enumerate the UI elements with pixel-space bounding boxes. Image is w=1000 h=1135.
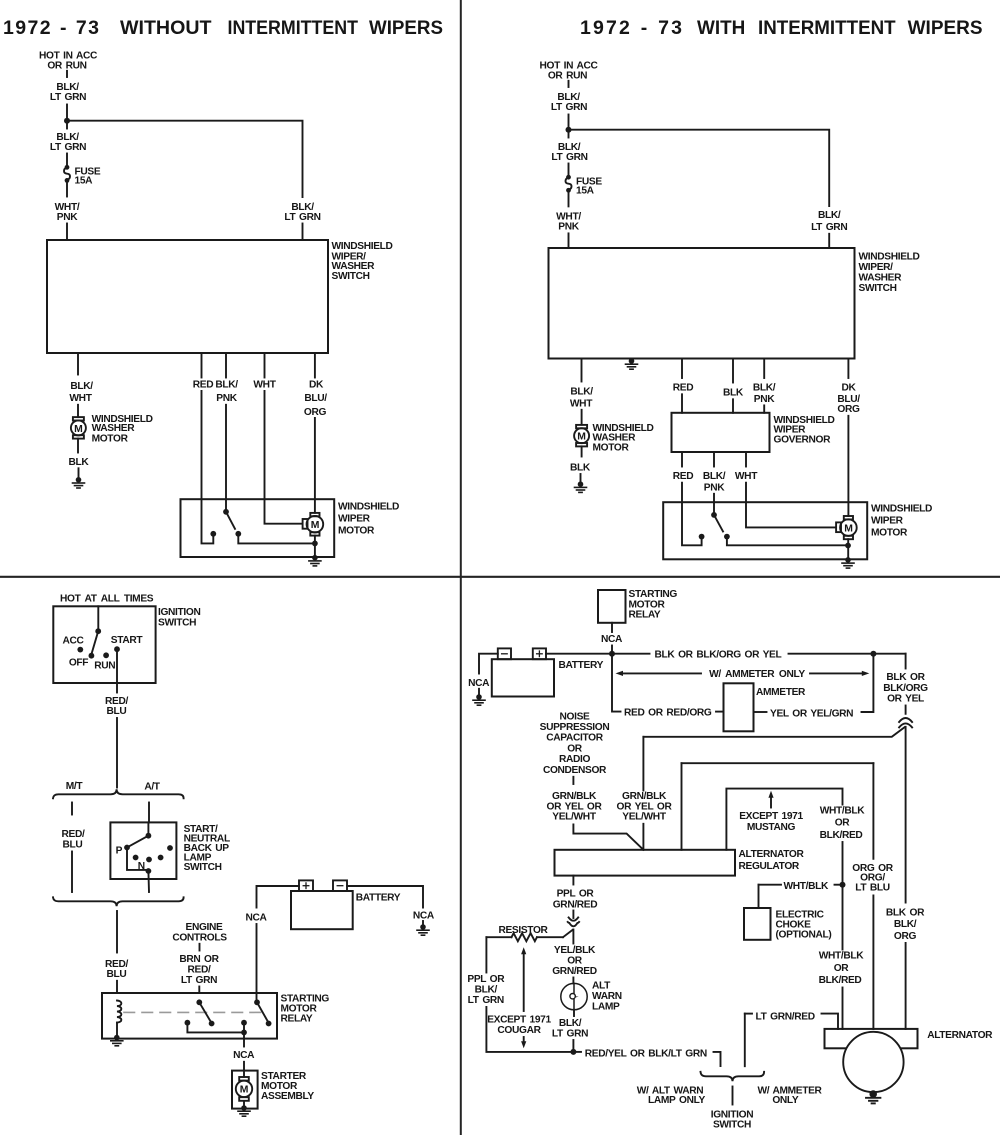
contact dot (RED park contact) [210,531,216,537]
svg-text:WIPERS: WIPERS [908,17,983,39]
svg-text:YEL/WHT: YEL/WHT [552,812,597,823]
wire battery + to junction [546,653,612,655]
wire into regulator [642,824,644,850]
label wire DK BLU/ORG [837,383,860,416]
svg-text:GRN/BLK: GRN/BLK [622,791,667,802]
svg-text:LT GRN: LT GRN [552,1029,588,1040]
node HOT IN ACC OR RUN (Q1 feed) [39,50,98,71]
svg-text:BLU: BLU [107,706,127,717]
contact dot START [114,646,120,652]
svg-text:WITHOUT: WITHOUT [120,17,212,39]
resistor (zigzag) [486,930,572,942]
label windshield wiper governor [774,415,835,446]
svg-text:BLU: BLU [63,840,83,851]
wire into alt warn lamp [572,978,574,984]
electric choke box [744,908,771,940]
svg-text:WINDSHIELD: WINDSHIELD [338,502,399,513]
label wire BLK/LT GRN (right branch) [284,202,320,223]
wire BLK/PNK into governor [763,405,765,412]
label starting motor relay [281,993,330,1024]
junction dot [566,127,572,133]
svg-text:MOTOR: MOTOR [871,528,908,539]
label wire BLK OR BLK/ORG OR YEL (vertical) [883,672,928,704]
svg-text:WIPER/: WIPER/ [859,262,894,273]
svg-text:BLK: BLK [570,462,591,473]
wire DK BLU/ORG from switch [314,353,316,378]
svg-text:OR YEL: OR YEL [887,694,924,705]
label wire GRN/BLK OR YEL OR YEL/WHT (1) [547,791,603,823]
wire to alternator [905,943,907,1029]
windshield wiper/washer switch box (Q2) [549,248,855,359]
svg-text:SWITCH: SWITCH [158,618,196,629]
svg-text:INTERMITTENT: INTERMITTENT [758,17,896,39]
svg-text:BLK/: BLK/ [818,210,841,221]
label alt warn lamp [592,980,622,1012]
contact dot ACC [77,647,83,653]
junction dot (lamp return) [570,1049,576,1055]
junction dot (choke tap) [840,882,846,888]
wire BLK/WHT from switch [581,359,583,382]
splice hop symbol [899,718,912,727]
label EXCEPT 1971 MUSTANG [739,811,803,833]
svg-text:M: M [577,432,586,443]
label ignition switch [158,607,200,628]
junction dot [146,868,152,874]
svg-text:WITH: WITH [697,17,745,39]
wire coil to ground [116,1023,118,1036]
svg-text:ACC: ACC [62,635,84,646]
wire NCA to starter motor [243,1062,245,1077]
wire stub below ENGINE CONTROLS [199,944,201,951]
relay armature dashed link [124,1011,262,1013]
wire WHT governor to motor brush [745,452,747,467]
wire BLK/PNK to switch pivot [225,405,227,512]
wire below fuse [66,183,68,197]
label wire BRN OR RED/LT GRN [179,954,219,986]
svg-text:WINDSHIELD: WINDSHIELD [332,241,393,252]
svg-text:BATTERY: BATTERY [356,892,401,903]
junction dot [609,651,615,657]
wire horiz to ORG column [682,762,874,764]
wire left leg to bottom run [486,1007,573,1052]
svg-text:CONDENSOR: CONDENSOR [543,765,607,776]
blade end dot [209,1021,215,1027]
wire BLK/PNK switch to governor [763,359,765,379]
svg-text:PNK: PNK [754,394,775,405]
brace (ignition switch feeds) [701,1072,765,1082]
wire motor to ground [314,543,316,557]
label ignition switch [711,1110,753,1131]
fuse 15A [64,165,101,187]
svg-text:SWITCH: SWITCH [713,1120,751,1131]
svg-text:BLK/ORG: BLK/ORG [883,683,928,694]
svg-text:M: M [844,524,853,535]
svg-text:A/T: A/T [144,781,160,792]
svg-text:DK: DK [841,383,856,394]
svg-text:1972 - 73: 1972 - 73 [3,17,99,39]
wire from contact to motor return [238,534,315,544]
title: 1972-73 WITH INTERMITTENT WIPERS [580,17,983,39]
svg-text:OR YEL OR: OR YEL OR [617,801,673,812]
wire to alternator [842,988,844,1030]
svg-text:RED/YEL OR BLK/LT GRN: RED/YEL OR BLK/LT GRN [585,1048,707,1059]
wire ORG column down [872,763,874,859]
svg-text:LT GRN: LT GRN [468,995,504,1006]
svg-text:IGNITION: IGNITION [158,607,200,618]
svg-text:BLK OR BLK/ORG OR YEL: BLK OR BLK/ORG OR YEL [655,649,782,660]
svg-text:SWITCH: SWITCH [859,283,897,294]
svg-text:DK: DK [309,380,324,391]
label windshield wiper/washer switch [332,241,393,282]
svg-text:GOVERNOR: GOVERNOR [774,434,832,445]
label wire BLK/LT GRN (below junction) [50,132,86,153]
ground on switch case [626,358,638,369]
wire right branch into switch [828,234,830,248]
label wire BLK OR BLK/ORG (to alternator) [886,907,925,941]
label EXCEPT 1971 COUGAR [487,1015,551,1037]
svg-text:OR RUN: OR RUN [548,70,587,81]
svg-text:SUPPRESSION: SUPPRESSION [540,722,610,733]
wire RED into governor [681,394,683,413]
wire out of switch bottom [147,871,150,892]
wire motor bottom to junction [314,536,316,544]
wire branch to right BLK/LT GRN [67,121,303,197]
wire WHT to motor [746,483,836,528]
start/neutral back up lamp switch box [110,822,176,879]
wire into ammeter [716,711,724,713]
svg-text:BLK/: BLK/ [215,380,238,391]
relay coil [117,1001,121,1023]
wire motor to ground [847,539,849,560]
ignition switch box [53,606,155,683]
svg-text:ENGINE: ENGINE [186,922,224,933]
pivot dot [711,512,717,518]
wire NCA down to relay [256,924,258,1002]
label wire BLK/WHT [69,381,93,404]
wire resistor left leg down [485,937,487,972]
svg-text:(OPTIONAL): (OPTIONAL) [776,930,832,941]
svg-text:LT GRN: LT GRN [50,92,86,103]
wire to ground [580,474,582,481]
svg-text:BLK: BLK [723,388,744,399]
wire down to choke junction [842,842,844,885]
wire feed into ignition switch [97,606,99,629]
ground (wiper motor Q2) [842,557,854,568]
alt warn lamp [561,983,587,1016]
wire RED/BLU to relay [116,911,118,953]
svg-text:LT GRN: LT GRN [811,222,847,233]
svg-text:MUSTANG: MUSTANG [747,822,796,833]
wire below junction [568,130,570,138]
svg-text:PNK: PNK [57,212,78,223]
label wire YEL/BLK OR GRN/RED [552,945,597,977]
svg-text:CONTROLS: CONTROLS [172,933,227,944]
wire into regulator top [681,763,683,850]
ground (washer motor Q2) [575,481,587,492]
contact dot above junction [241,1020,247,1026]
wire BLK below washer motor [77,439,79,453]
label start/neutral back up lamp switch [184,824,230,873]
svg-text:RADIO: RADIO [559,754,591,765]
contact dot [167,845,173,851]
svg-text:ORG: ORG [304,407,327,418]
battery (Q3) [291,880,353,929]
svg-text:LT GRN: LT GRN [181,975,217,986]
windshield washer motor (Q2) [574,425,589,447]
svg-text:WASHER: WASHER [859,273,903,284]
wire lamp to junction [572,1040,574,1052]
wire contact to starter output [187,1023,244,1033]
blade end dot [266,1021,272,1027]
label windshield washer motor [593,423,654,453]
svg-text:PPL OR: PPL OR [467,974,505,985]
wire GRN/BLK column 2 [642,737,644,791]
wire hop down to alternator [905,727,907,903]
wire RED from switch [201,353,203,378]
svg-text:BLK/: BLK/ [703,471,726,482]
svg-text:BATTERY: BATTERY [559,660,604,671]
ground (battery -) [417,924,429,935]
svg-text:WHT: WHT [253,380,276,391]
svg-text:BLK/RED: BLK/RED [819,975,862,986]
svg-text:RED: RED [193,380,213,391]
svg-text:MOTOR: MOTOR [92,433,129,444]
wire WHT/BLK tap to choke [759,885,843,908]
wire ammeter right [754,711,767,713]
label wire BLK/LT GRN (upper) [50,82,86,103]
junction dot at motor return [312,541,318,547]
svg-text:LT GRN/RED: LT GRN/RED [756,1012,815,1023]
arrow range W/ AMMETER ONLY [616,671,870,676]
svg-text:WHT: WHT [735,471,758,482]
wire BLK/PNK from switch [225,353,227,378]
label wire BLK/LT GRN (upper) [551,92,587,113]
svg-text:GRN/RED: GRN/RED [553,899,598,910]
label windshield wiper motor [871,504,932,539]
contact dot [158,855,164,861]
svg-text:NOISE: NOISE [560,711,591,722]
wire junction right (BLK OR BLK/ORG OR YEL) [612,653,650,655]
neutral switch blade [129,836,149,847]
wire M/T branch lower [71,852,73,893]
wire below connector [572,930,574,944]
pivot dot [95,628,101,634]
contact dot [185,1020,191,1026]
wire down to splice hop [905,706,907,714]
wire LT GRN/RED stub [745,1014,752,1067]
wire to right corner [789,653,906,655]
fuse 15A (Q2) [566,175,603,197]
label wire PPL OR BLK/LT GRN [467,974,505,1006]
wire inside to pivot [147,822,149,833]
wire battery + to relay [257,886,300,908]
label wire BLK/LT GRN [552,1018,588,1039]
wire arrow into connector [569,911,579,921]
svg-text:LT GRN: LT GRN [50,142,86,153]
svg-text:WHT/BLK: WHT/BLK [820,805,866,816]
svg-text:15A: 15A [75,176,94,187]
wire P contact to output [127,848,148,870]
svg-text:ONLY: ONLY [772,1095,799,1106]
windshield washer motor (Q1) [71,417,86,439]
wire from START contact [116,649,118,692]
wire RED into motor box [682,483,702,546]
wire DK BLU/ORG to motor [314,418,316,513]
label windshield washer motor [92,414,153,444]
ground (washer motor Q1) [73,477,85,488]
svg-text:START: START [111,635,144,646]
wire WHT to motor brush [265,391,303,524]
svg-text:BLK/RED: BLK/RED [820,830,863,841]
label wire GRN/BLK OR YEL OR YEL/WHT (2) [617,791,673,823]
ground (battery - Q4) [473,694,485,705]
connector cup [568,922,579,926]
wire regulator bottom [572,876,574,885]
svg-text:BLK/: BLK/ [70,381,93,392]
label wire BLK/WHT [570,387,593,410]
wire junction through box to starter [243,1023,245,1047]
pivot dot [146,833,152,839]
svg-text:NCA: NCA [233,1050,255,1061]
wire YEL to junction [862,654,874,712]
svg-text:ASSEMBLY: ASSEMBLY [261,1091,314,1102]
svg-text:WIPER: WIPER [338,514,371,525]
svg-text:HOT AT ALL TIMES: HOT AT ALL TIMES [60,594,154,605]
label W/ ALT WARN LAMP ONLY [637,1085,706,1106]
node ENGINE CONTROLS [172,922,227,944]
title: 1972-73 WITHOUT INTERMITTENT WIPERS [3,17,443,39]
svg-text:ORG: ORG [837,404,860,415]
wire into washer motor [77,405,79,417]
wire right corner down [905,654,907,669]
ground (starter motor) [238,1105,250,1116]
wire stub below HOT label [568,81,570,87]
wire BLK/LT GRN down to junction [66,105,68,119]
label wire WHT/BLK OR BLK/RED (lower) [819,950,865,986]
label wire PPL OR GRN/RED [553,889,598,911]
wire into washer motor [581,410,583,425]
pivot dot (battery switch) [254,999,260,1005]
svg-text:GRN/BLK: GRN/BLK [552,791,597,802]
label windshield wiper/washer switch [859,252,920,295]
wire battery - to NCA ground [479,654,498,674]
wire RED/BLU into relay [116,981,118,993]
svg-text:AMMETER: AMMETER [756,687,806,698]
svg-text:MOTOR: MOTOR [593,442,630,453]
svg-text:M: M [74,424,83,435]
pivot dot (engine controls switch) [196,999,202,1005]
frame: horizontal divider [0,576,1000,578]
node HOT IN ACC OR RUN (Q2 feed) [540,60,599,81]
svg-text:LAMP: LAMP [592,1001,620,1012]
label wire BLK/PNK [753,383,776,405]
starting motor relay box (Q4) [598,590,626,623]
svg-text:BLK/: BLK/ [753,383,776,394]
svg-text:BLK/: BLK/ [559,1018,582,1029]
windshield wiper motor box (Q1) [181,499,335,557]
wire BLK/PNK to pivot [713,494,715,515]
wire NCA to junction [611,646,613,654]
wire BLK into governor [732,399,734,413]
svg-text:OR YEL OR: OR YEL OR [547,801,603,812]
svg-text:WINDSHIELD: WINDSHIELD [859,252,920,263]
ammeter box [724,683,754,731]
svg-text:REGULATOR: REGULATOR [739,861,800,872]
svg-text:1972 - 73: 1972 - 73 [580,17,682,39]
wire junction down to ammeter [612,654,621,712]
contact dot P [124,845,130,851]
brace (M/T / A/T split) [53,789,184,798]
wiper motor M symbol (Q1) [303,513,324,536]
svg-text:RED: RED [673,383,693,394]
label starter motor assembly [261,1071,314,1102]
wire battery - to ground [347,886,423,908]
wire to ignition switch stub [714,1052,721,1066]
svg-text:BLK OR: BLK OR [886,907,925,918]
svg-text:YEL OR YEL/GRN: YEL OR YEL/GRN [770,708,853,719]
frame: vertical divider [460,0,462,1135]
brace (recombine M/T A/T) [53,897,184,906]
alternator rotor circle [843,1032,903,1092]
svg-text:LT BLU: LT BLU [855,882,890,893]
wire DK BLU/ORG from switch [847,359,849,379]
junction dot at motor return [845,543,851,549]
svg-text:CAPACITOR: CAPACITOR [546,733,603,744]
svg-text:COUGAR: COUGAR [497,1025,541,1036]
svg-text:LT GRN: LT GRN [551,152,587,163]
node noise suppression capacitor [540,711,610,776]
wire right branch into switch [302,224,304,241]
starter motor M symbol [236,1077,252,1101]
wire RED switch to governor [681,359,683,379]
svg-text:WHT: WHT [570,398,593,409]
svg-text:NCA: NCA [601,634,623,645]
ground (alternator) [866,1090,880,1103]
svg-text:M: M [311,520,320,531]
label W/ AMMETER ONLY [757,1085,822,1106]
wire ORG to alternator [872,896,874,1030]
svg-text:OR: OR [834,963,850,974]
switch blade (wiper motor park switch Q2) [714,515,723,532]
junction dot [241,1030,247,1036]
label wire RED/BLU [105,959,128,980]
wire BLK/LT GRN down to junction [568,115,570,129]
svg-text:OFF: OFF [69,658,88,669]
svg-text:SWITCH: SWITCH [184,862,222,873]
svg-text:WIPER: WIPER [871,516,904,527]
starter motor assembly box [232,1071,258,1109]
svg-text:PNK: PNK [704,482,725,493]
wire motor to ground [243,1101,245,1108]
svg-text:ALTERNATOR: ALTERNATOR [927,1030,993,1041]
label alternator regulator [739,849,805,872]
svg-text:M: M [240,1085,249,1096]
contact dot (RED park contact) [699,534,705,540]
contact dot [133,855,139,861]
svg-text:LT GRN: LT GRN [284,212,320,223]
svg-text:NCA: NCA [245,913,267,924]
wire LT GRN/RED to alternator [822,1014,839,1029]
wire below junction [66,121,68,129]
switch blade (wiper motor park switch Q1) [226,512,235,529]
svg-text:PPL OR: PPL OR [557,889,595,900]
svg-text:W/ AMMETER ONLY: W/ AMMETER ONLY [709,669,805,680]
wire into relay [198,987,200,994]
svg-text:ORG: ORG [894,931,917,942]
windshield wiper motor box (Q2) [663,502,867,559]
label wire RED/BLU (M/T) [62,829,85,850]
wire regulator top loop [726,789,842,850]
